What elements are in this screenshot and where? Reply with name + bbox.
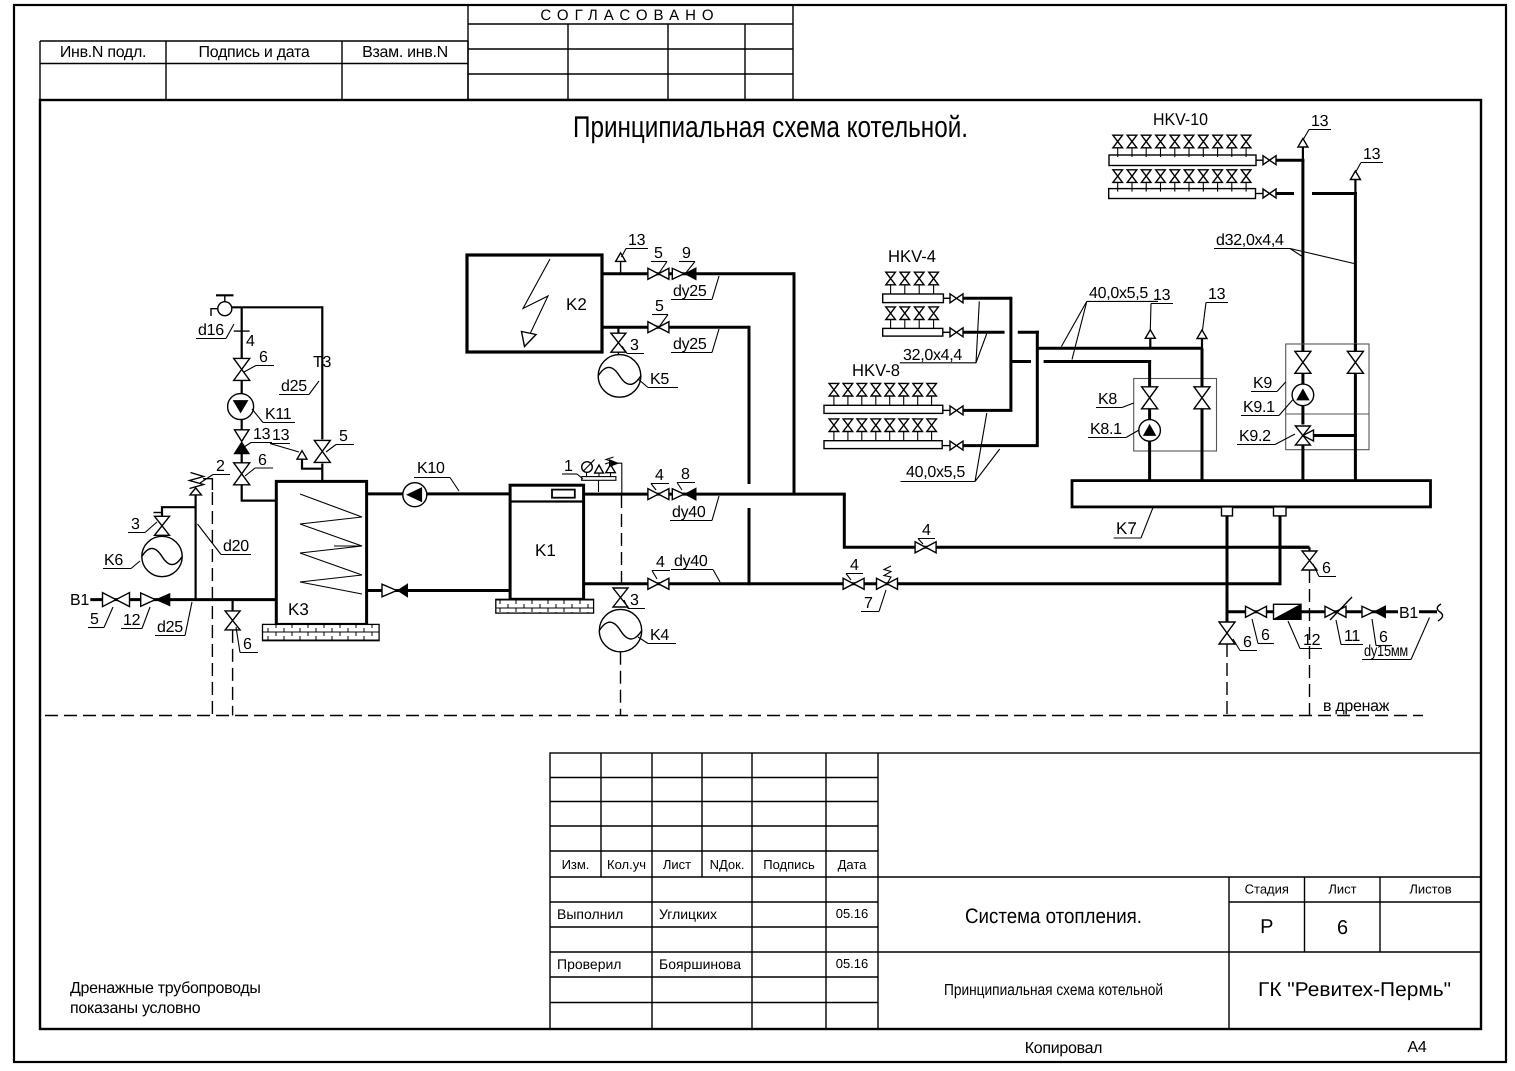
svg-text:Лист: Лист [1328, 882, 1356, 897]
label 4 [651, 467, 669, 490]
label 5 [326, 428, 354, 452]
label 9 [679, 245, 695, 274]
svg-text:HKV-4: HKV-4 [888, 247, 936, 266]
valve 3 [155, 516, 170, 535]
return pipe K1 to right [584, 582, 1281, 585]
svg-text:K1: K1 [535, 541, 556, 560]
manifold HKV-10 [1109, 110, 1256, 199]
svg-text:K4: K4 [650, 627, 669, 644]
pipe riser with K11 [241, 307, 243, 358]
svg-text:HKV-8: HKV-8 [852, 361, 900, 380]
label 13 [1203, 286, 1229, 330]
valve 11 [1325, 597, 1352, 620]
svg-text:dy25: dy25 [673, 283, 707, 300]
line to K8 left (from riser A) [1011, 360, 1151, 363]
svg-text:40,0x5,5: 40,0x5,5 [906, 464, 965, 481]
collector K7 [1072, 481, 1431, 507]
manifold riser B [963, 331, 1037, 446]
label 2 [200, 458, 230, 483]
label 6 [1252, 619, 1274, 644]
valve 5 on T3 [314, 440, 330, 462]
manifold HKV-8 [824, 361, 943, 449]
svg-text:d25: d25 [157, 619, 183, 636]
label d32,0x4,4 [1214, 232, 1354, 264]
svg-text:K9: K9 [1253, 375, 1272, 392]
label 3 [128, 516, 157, 533]
check valve 6 [1362, 606, 1386, 618]
pump K11 [228, 394, 254, 420]
svg-text:4: 4 [850, 557, 859, 574]
label 3 [622, 337, 644, 354]
svg-text:40,0x5,5: 40,0x5,5 [1089, 285, 1148, 302]
svg-text:12: 12 [123, 612, 141, 629]
label 1 [562, 458, 583, 479]
svg-text:в дренаж: в дренаж [1323, 698, 1390, 715]
svg-text:05.16: 05.16 [836, 906, 869, 921]
svg-text:13: 13 [272, 427, 290, 444]
svg-text:6: 6 [1337, 917, 1348, 939]
label 4 + dy40 on return [652, 554, 670, 579]
svg-text:3: 3 [131, 516, 140, 533]
valve 5 [648, 322, 669, 333]
label 40,0x5,5 lower [901, 413, 1000, 482]
K1 foundation [496, 599, 594, 613]
svg-text:8: 8 [681, 466, 690, 483]
svg-text:Лист: Лист [663, 857, 691, 872]
label dy15мм [1362, 618, 1430, 661]
heat exchanger K3 [276, 481, 366, 624]
svg-text:6: 6 [243, 636, 252, 653]
svg-text:Принципиальная схема котельной: Принципиальная схема котельной. [573, 111, 968, 144]
svg-text:K8: K8 [1098, 391, 1117, 408]
pipe K3 to K1 top [367, 492, 511, 495]
T3 riser [321, 306, 323, 439]
label dy25 [671, 329, 719, 353]
label 7 [861, 590, 886, 612]
svg-text:6: 6 [1243, 634, 1252, 651]
strainer 12 [1274, 604, 1302, 619]
svg-text:13: 13 [253, 426, 271, 443]
svg-text:K7: K7 [1116, 519, 1137, 538]
label 11 [1336, 620, 1363, 645]
svg-text:Принципиальная схема котельной: Принципиальная схема котельной [944, 982, 1163, 999]
svg-text:Бояршинова: Бояршинова [659, 956, 741, 972]
svg-text:Дата: Дата [838, 857, 868, 872]
HKV-10 return connection [1256, 189, 1357, 198]
valve 4 [648, 489, 669, 500]
label 5 [651, 245, 667, 274]
svg-text:4: 4 [656, 554, 665, 571]
label K7 [1114, 508, 1153, 539]
label 4 [918, 522, 935, 544]
label 13 [622, 232, 649, 257]
svg-text:2: 2 [216, 458, 225, 475]
svg-text:Подпись и дата: Подпись и дата [199, 44, 310, 61]
label dy25 [671, 276, 719, 300]
safety valve 2 [190, 473, 213, 495]
manifold riser A [963, 297, 1011, 411]
svg-text:Стадия: Стадия [1245, 882, 1289, 897]
label 32,0x4,4 [900, 301, 987, 364]
valve 3 [611, 333, 626, 352]
label 8 [677, 466, 695, 490]
label K8 [1096, 391, 1134, 408]
drain dashed from safety valve [211, 492, 213, 716]
line to K8 right (from riser B) [1037, 347, 1202, 350]
check valve 12 [141, 593, 170, 606]
svg-text:Система отопления.: Система отопления. [965, 905, 1142, 928]
check valve (pos.13) [234, 430, 249, 454]
svg-text:5: 5 [90, 611, 99, 628]
svg-text:Проверил: Проверил [557, 956, 621, 972]
svg-text:5: 5 [654, 245, 663, 262]
pump unit K8 [1134, 348, 1217, 489]
svg-text:B1: B1 [1399, 605, 1418, 622]
svg-text:4: 4 [922, 522, 931, 539]
svg-text:dy40: dy40 [672, 504, 706, 521]
riser 1 to K9 [1301, 160, 1304, 352]
boiler K1 [510, 485, 583, 599]
label 6 [1372, 619, 1392, 646]
svg-text:11: 11 [1344, 628, 1360, 645]
svg-text:Инв.N подл.: Инв.N подл. [60, 44, 146, 61]
svg-text:13: 13 [1363, 146, 1381, 163]
label 6 [236, 627, 258, 653]
label K9.2 [1237, 428, 1295, 445]
label 5 [88, 607, 113, 628]
svg-text:Копировал: Копировал [1025, 1040, 1102, 1057]
valve 3 above K4 [613, 588, 628, 607]
label K4 [638, 627, 676, 644]
air vent 13 beside T3 [297, 451, 322, 469]
svg-text:13: 13 [1311, 113, 1329, 130]
svg-text:Подпись: Подпись [763, 857, 815, 872]
svg-text:dy15мм: dy15мм [1364, 643, 1408, 660]
svg-text:K5: K5 [650, 371, 669, 388]
drain assembly pipe [1227, 610, 1398, 613]
riser 2 to K9 [1354, 192, 1357, 353]
check valve 9 [672, 268, 696, 280]
manifold HKV-4 [883, 247, 944, 336]
svg-text:Изм.: Изм. [562, 857, 590, 872]
valve 6 lower [234, 463, 250, 485]
svg-text:4: 4 [246, 333, 255, 350]
label 13 [270, 427, 299, 452]
svg-text:d16: d16 [198, 322, 224, 339]
label 40,0x5,5 upper [1061, 285, 1158, 360]
svg-text:K2: K2 [566, 295, 587, 314]
label 13 [1356, 146, 1383, 172]
pump K10 [403, 483, 427, 507]
drain valve 6 under B1 pipe [232, 600, 234, 612]
drain branch valve 6 [1280, 547, 1317, 715]
boiler K2 [467, 255, 602, 352]
svg-text:d25: d25 [281, 378, 307, 395]
valve 4 on header [915, 542, 936, 553]
svg-text:1: 1 [564, 458, 573, 475]
label 6 [1233, 634, 1257, 651]
HKV-10 supply connection [1256, 156, 1304, 165]
svg-text:А4: А4 [1408, 1039, 1427, 1056]
supply pipe K1 to right [584, 493, 846, 496]
K2 return pipe [602, 326, 749, 329]
label 5 [652, 298, 668, 327]
svg-text:5: 5 [655, 298, 664, 315]
svg-text:3: 3 [630, 337, 639, 354]
air vent 13 [1197, 330, 1207, 348]
svg-text:13: 13 [1208, 286, 1226, 303]
node B1 outlet [1399, 604, 1443, 622]
pipe B1 to K3 [90, 598, 277, 601]
check valve 8 [672, 488, 696, 500]
svg-text:Выполнил: Выполнил [557, 906, 623, 922]
meter K4 [599, 609, 641, 651]
valve 6 [234, 358, 250, 380]
svg-text:6: 6 [1322, 560, 1331, 577]
svg-text:6: 6 [259, 349, 268, 366]
svg-text:показаны условно: показаны условно [70, 1000, 201, 1017]
label K9.1 [1241, 399, 1293, 416]
HKV-8 supply connection [943, 406, 963, 415]
title block [550, 753, 1481, 1029]
label K11 [252, 406, 295, 423]
label 3 [624, 592, 645, 609]
label d16 [196, 322, 234, 339]
svg-text:Р: Р [1260, 916, 1273, 938]
K2 return riser down (gap over supply pipe) [748, 326, 751, 484]
svg-text:3: 3 [630, 592, 639, 609]
pump unit K9 [1286, 344, 1369, 489]
fitting 4 tick [234, 330, 250, 332]
svg-text:9: 9 [682, 245, 691, 262]
svg-text:4: 4 [655, 467, 664, 484]
pipe into K3 left top [241, 500, 278, 502]
svg-text:K8.1: K8.1 [1090, 421, 1122, 438]
label 13 [1304, 113, 1332, 139]
meter K5 [598, 352, 641, 397]
approval table СОГЛАСОВАНО [468, 5, 793, 100]
svg-text:K6: K6 [104, 552, 123, 569]
svg-text:K3: K3 [288, 600, 309, 619]
svg-text:Взам. инв.N: Взам. инв.N [362, 44, 448, 61]
svg-text:K9.1: K9.1 [1243, 399, 1275, 416]
svg-text:d20: d20 [223, 538, 249, 555]
air vent 13 [1145, 330, 1155, 349]
instrument group pos.1 [582, 457, 622, 493]
svg-text:ГК "Ревитех-Пермь": ГК "Ревитех-Пермь" [1258, 979, 1451, 1001]
label K5 [638, 371, 678, 388]
valve 5 [103, 593, 130, 607]
label d20 [198, 524, 252, 555]
check valve on return [382, 584, 408, 597]
valve 4 right [843, 578, 864, 589]
svg-text:Листов: Листов [1409, 882, 1451, 897]
svg-text:5: 5 [339, 428, 348, 445]
svg-text:05.16: 05.16 [836, 956, 869, 971]
K3 foundation [263, 624, 380, 640]
top-left header table [40, 41, 468, 100]
label 6 [1313, 560, 1336, 577]
label K10 [414, 460, 459, 491]
svg-text:13: 13 [628, 232, 646, 249]
valve 5 [648, 268, 669, 279]
HKV-8 return connection [942, 441, 963, 450]
valve 4 on return [648, 578, 669, 589]
svg-text:СОГЛАСОВАНО: СОГЛАСОВАНО [540, 7, 719, 24]
label 6 [245, 452, 273, 476]
drain line under K4 [621, 495, 623, 584]
supply drop and header pipe [844, 494, 1309, 547]
label d25 [279, 378, 319, 395]
safety valve 2 riser [195, 495, 197, 600]
HKV-4 return connection [943, 328, 1039, 337]
svg-text:d32,0x4,4: d32,0x4,4 [1216, 232, 1284, 249]
drain line [45, 715, 1423, 717]
svg-text:dy25: dy25 [673, 336, 707, 353]
regulator 7 [877, 566, 898, 589]
HKV-4 supply connection [943, 294, 1011, 303]
pipe from faucet to T3 riser [232, 306, 323, 308]
label K9 [1251, 375, 1286, 392]
air vent 13 on K2 pipe [616, 253, 626, 274]
label K6 [103, 552, 140, 569]
svg-text:NДок.: NДок. [710, 857, 745, 872]
meter K6 [142, 536, 182, 576]
collector outlets [1222, 507, 1287, 622]
label d25 [155, 602, 192, 636]
label 13 [244, 426, 272, 447]
svg-text:K10: K10 [417, 460, 445, 477]
air vent 13 on riser 1 [1298, 139, 1308, 161]
label 12 [121, 607, 150, 629]
svg-text:Кол.уч: Кол.уч [607, 857, 646, 872]
svg-text:6: 6 [258, 452, 267, 469]
svg-text:dy40: dy40 [674, 553, 708, 570]
svg-text:12: 12 [1303, 632, 1321, 649]
branch to meter K6 [154, 507, 196, 516]
svg-text:B1: B1 [70, 592, 89, 609]
K2 supply riser down [793, 272, 796, 495]
svg-text:32,0x4,4: 32,0x4,4 [903, 347, 962, 364]
label K8.1 [1088, 421, 1139, 438]
label 12 [1288, 621, 1322, 649]
K2 supply pipe [602, 272, 794, 275]
valve 6 vertical [1219, 622, 1235, 716]
return pipe K1 to K3 [367, 589, 511, 592]
svg-text:6: 6 [1261, 627, 1270, 644]
svg-text:T3: T3 [313, 354, 331, 371]
valve 6 [1246, 606, 1267, 617]
faucet d16 [211, 295, 234, 316]
air vent 13 on riser 2 [1350, 171, 1360, 192]
svg-text:Углицких: Углицких [659, 906, 717, 922]
svg-text:Дренажные трубопроводы: Дренажные трубопроводы [70, 980, 261, 997]
label 4 [846, 557, 863, 580]
svg-text:K9.2: K9.2 [1239, 428, 1271, 445]
svg-text:K11: K11 [265, 406, 292, 423]
svg-text:7: 7 [864, 595, 873, 612]
label dy40 [670, 496, 719, 521]
label 13 [1150, 287, 1173, 330]
label 6 [244, 349, 274, 372]
branch to meter K5 [617, 327, 619, 333]
svg-text:HKV-10: HKV-10 [1153, 110, 1208, 129]
